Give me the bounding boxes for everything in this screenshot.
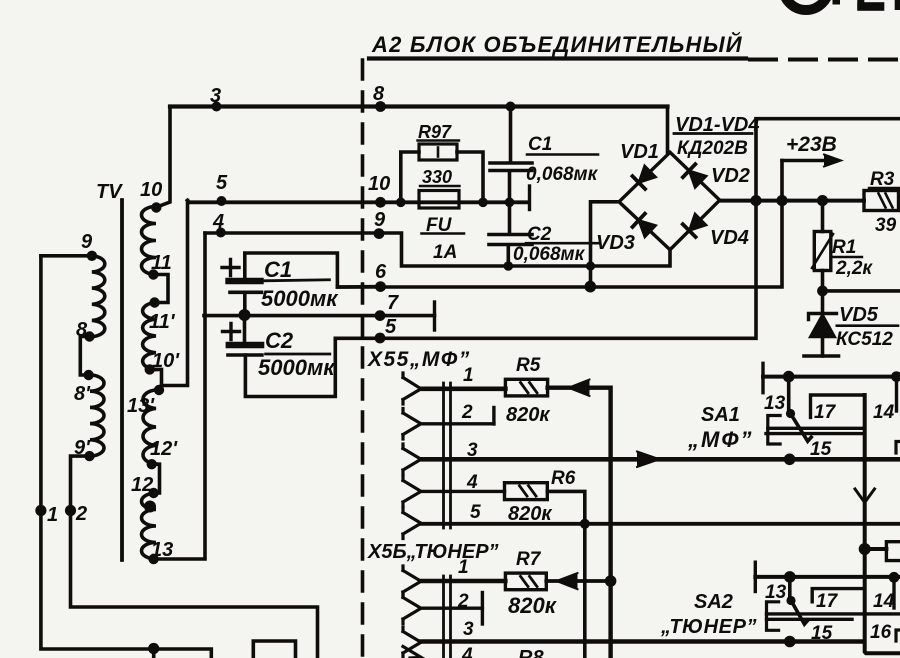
terminal bar end of wire 10: [528, 186, 531, 210]
connector X55 pin5 contact: [403, 508, 421, 539]
bridge diamond VD1-VD4: [619, 152, 720, 249]
svg-text:X55„МФ”: X55„МФ”: [367, 348, 471, 371]
node C lead on wire7: [239, 310, 249, 320]
svg-text:13': 13': [127, 395, 155, 417]
svg-text:15: 15: [810, 439, 832, 460]
svg-text:VD1: VD1: [620, 141, 659, 163]
svg-text:17: 17: [814, 402, 837, 423]
resistor R97 body: [419, 144, 457, 160]
svg-text:TV: TV: [96, 181, 123, 203]
svg-text:5000мк: 5000мк: [261, 286, 339, 311]
underline C1 5000: [263, 280, 329, 281]
node 9: [87, 251, 97, 261]
winding II section 11p-10p: [143, 303, 156, 370]
capacitor C2 5000 bottom plate: [228, 353, 262, 357]
capacitor C2 5000 bottom lead and frame to wire5blk: [245, 338, 335, 396]
wire left rail pin1 down: [41, 256, 211, 658]
node drop crossing wire4-9: [586, 261, 595, 270]
wire pin 7 stub: [204, 314, 435, 318]
winding I section 8p-9p: [90, 375, 104, 456]
svg-text:13: 13: [151, 539, 173, 561]
terminal bar X55 pin2: [492, 408, 495, 425]
wire pins 5-10: [188, 201, 530, 203]
resistor R97 leads: [401, 152, 483, 202]
svg-text:10: 10: [140, 179, 162, 201]
zener VD5 triangle: [810, 315, 835, 338]
svg-text:3: 3: [210, 85, 221, 107]
wire X55 pin5 long: [421, 522, 900, 526]
resistor R3 marks: [879, 194, 893, 208]
wire transformer pin10 riser: [158, 107, 170, 207]
wire SA rail to edge resistor: [865, 547, 887, 551]
svg-text:14: 14: [873, 591, 895, 612]
capacitor C1 5000 bottom plate: [230, 290, 262, 294]
wire pin9p to rail 2: [71, 456, 318, 658]
resistor R6 marks: [520, 486, 537, 496]
switch SA1 top line: [763, 375, 900, 379]
terminal bar end of wire 7: [433, 302, 436, 330]
wire X5B pin1 to R7: [421, 579, 505, 583]
underline 330: [420, 185, 460, 187]
svg-text:14: 14: [873, 402, 895, 423]
zener VD5 top lead: [821, 291, 825, 313]
node 12p: [147, 459, 157, 469]
wire pins 3-8 top: [170, 104, 668, 108]
switch SA2 lines to 14: [767, 614, 900, 619]
zener VD5 bottom lead: [821, 337, 825, 356]
diode VD2: [683, 164, 706, 188]
svg-text:1: 1: [47, 504, 58, 526]
wire X55 pin1 to R5: [421, 386, 505, 391]
winding jog 11-11p: [153, 275, 168, 303]
svg-text:R1: R1: [832, 237, 856, 258]
fuse FU body: [419, 191, 459, 209]
wire R6 to wire pin5: [547, 491, 585, 523]
wire X55 pin3 to SA1: [421, 457, 900, 462]
svg-text:9': 9': [74, 437, 91, 459]
svg-text:С2: С2: [265, 328, 294, 353]
node 10: [151, 202, 161, 212]
svg-text:2: 2: [457, 591, 469, 612]
resistor R3 body: [864, 191, 899, 211]
svg-text:330: 330: [422, 167, 452, 187]
switch SA2 top tick: [754, 562, 757, 591]
svg-text:9: 9: [81, 231, 93, 253]
node 6: [375, 281, 386, 292]
node R6 drop: [580, 519, 590, 529]
node 11p: [149, 297, 159, 307]
svg-text:15: 15: [811, 623, 833, 644]
zener VD5 end bar: [804, 354, 839, 358]
connector X5B pin4 contact: [403, 647, 421, 658]
svg-text:R6: R6: [551, 468, 576, 489]
svg-text:5: 5: [385, 316, 397, 338]
underline VD5: [837, 324, 898, 327]
capacitor C1 0068 top lead: [509, 107, 513, 162]
wire R5 to rail: [548, 388, 611, 658]
node 1: [35, 505, 46, 516]
svg-text:С1: С1: [264, 257, 292, 282]
+23V arrow: [782, 159, 833, 163]
svg-text:11': 11': [149, 311, 176, 333]
capacitor C1 5000 top lead and frame to pin6: [245, 253, 381, 287]
wire X5B pin2 stub: [421, 607, 482, 610]
arrow on R5 wire: [569, 380, 590, 397]
svg-text:R97: R97: [418, 122, 452, 142]
node 13p: [154, 385, 164, 395]
capacitor C1 5000 plus sign: [222, 260, 239, 276]
svg-text:7: 7: [387, 292, 399, 314]
switch SA1 left bracket: [768, 416, 780, 445]
dashed frame vertical: [361, 60, 365, 658]
diode VD1: [633, 166, 656, 189]
arrow down on SA rail: [855, 489, 875, 503]
svg-text:1: 1: [458, 557, 469, 578]
svg-text:12': 12': [150, 438, 178, 460]
switch SA2 right tick: [892, 577, 895, 608]
big heading letter E: [857, 2, 884, 11]
dashed frame horizontal: [750, 58, 900, 62]
wire pin 5 block: [335, 119, 900, 339]
node 8p: [83, 370, 93, 380]
node R1 top: [817, 195, 828, 206]
connector X5B pin3 contact: [403, 627, 421, 658]
underline VD1-VD4 label: [674, 132, 752, 135]
connector X5B rails: [444, 576, 451, 658]
svg-text:4: 4: [461, 645, 473, 658]
svg-text:820к: 820к: [508, 503, 552, 525]
switch SA2 pivot drop: [788, 577, 792, 599]
svg-text:39: 39: [875, 215, 897, 236]
winding jog 8-8p: [80, 337, 89, 376]
big heading letter T: [833, 0, 841, 5]
node bridge minus on wire6: [585, 281, 597, 293]
resistor R7 body: [505, 573, 546, 590]
svg-text:VD4: VD4: [710, 227, 749, 249]
svg-text:КД202В: КД202В: [677, 138, 748, 159]
node 7: [375, 310, 386, 321]
capacitor C2 5000 top lead: [243, 315, 247, 345]
node 10: [375, 197, 386, 208]
underline FU: [422, 232, 465, 235]
svg-text:+23В: +23В: [786, 133, 837, 156]
resistor R6 body: [505, 483, 548, 500]
underline R97: [418, 139, 460, 141]
winding II section 10-11: [142, 207, 157, 275]
capacitor C1 0068 bottom lead: [508, 172, 512, 202]
node SA2 13: [784, 571, 796, 583]
svg-text:SA1: SA1: [701, 404, 740, 426]
node junction row at vertical A: [750, 195, 761, 206]
capacitor C2 5000 top plate: [229, 342, 261, 349]
svg-text:8: 8: [373, 83, 385, 105]
connector X55 pin2 contact: [403, 409, 421, 440]
node SA2 pivot: [786, 596, 795, 605]
svg-text:R7: R7: [516, 549, 542, 570]
node 5tr: [217, 196, 227, 206]
connector X55 rails: [444, 383, 451, 528]
svg-text:X5Б„ТЮНЕР”: X5Б„ТЮНЕР”: [367, 541, 499, 563]
svg-text:1А: 1А: [433, 242, 457, 263]
svg-text:SA2: SA2: [694, 591, 733, 613]
node SA1 13: [783, 371, 795, 383]
node R7 at rail: [605, 575, 617, 587]
node 12: [148, 488, 158, 498]
capacitor C2 5000 plus sign: [223, 324, 240, 340]
wire drop to bridge top: [666, 107, 670, 153]
node SA2 right: [889, 572, 900, 583]
node bottom stub: [148, 643, 159, 654]
wire R6 drop continues down: [583, 524, 587, 658]
connector X55 pin4 contact: [403, 476, 421, 507]
node C1 0068 bottom: [505, 198, 515, 208]
capacitor C1 5000 top plate: [229, 278, 261, 284]
wire R7 to rail node: [546, 579, 610, 583]
node mid 12-13: [144, 501, 156, 513]
svg-text:„МФ”: „МФ”: [687, 427, 754, 452]
connector X55 pin1 contact: [403, 373, 421, 404]
node 13: [148, 554, 158, 564]
connector X5B pin1 contact: [403, 566, 421, 597]
big heading letter C: [783, 0, 829, 10]
wire bridge left vertex drop: [591, 202, 620, 287]
resistor edge body: [886, 542, 900, 561]
svg-text:5: 5: [470, 502, 481, 523]
node junction row at +23V riser: [776, 195, 787, 206]
svg-text:2,2к: 2,2к: [835, 258, 873, 279]
node 3: [212, 102, 222, 112]
resistor R1 adjust stroke: [812, 234, 833, 268]
winding I section 9-8: [92, 256, 105, 337]
svg-text:6: 6: [375, 261, 387, 283]
node R97 right: [478, 198, 488, 208]
svg-text:4: 4: [212, 211, 224, 233]
svg-text:10: 10: [368, 173, 390, 195]
svg-text:FU: FU: [426, 215, 453, 236]
svg-text:„ТЮНЕР”: „ТЮНЕР”: [660, 616, 757, 638]
underline R1: [833, 256, 862, 258]
underline R3: [869, 187, 899, 189]
switch SA1 arm: [790, 412, 812, 441]
node 2: [65, 505, 76, 516]
capacitor C2 0068 top lead: [508, 202, 512, 233]
node R97 left: [396, 198, 406, 208]
svg-text:8: 8: [76, 319, 88, 341]
svg-text:11: 11: [151, 252, 172, 274]
capacitor C1 0068 plates: [490, 163, 532, 171]
svg-text:17: 17: [816, 591, 839, 612]
node C2 5000 top: [239, 309, 251, 321]
svg-text:0,068мк: 0,068мк: [526, 164, 599, 185]
wire pin5 rail to winding tap: [162, 201, 188, 386]
node C2 lead on wire4-9: [504, 261, 514, 271]
arrow on R7 wire: [557, 573, 578, 589]
svg-text:VD2: VD2: [711, 165, 750, 187]
node 9: [374, 228, 385, 239]
svg-text:VD1-VD4: VD1-VD4: [675, 114, 759, 136]
resistor R7 marks: [521, 576, 538, 586]
capacitor C2 0068 bottom lead: [506, 246, 510, 266]
wire bridge right vertex to R3: [720, 199, 864, 203]
wire X55 pin4 to R6: [421, 490, 505, 493]
node SA1 right: [891, 371, 900, 382]
node 11: [148, 269, 158, 279]
svg-text:VD5: VD5: [839, 304, 879, 326]
terminal bar X5B pin2: [481, 593, 484, 625]
node SA1 pivot: [786, 409, 795, 418]
box bottom center component: [253, 641, 295, 658]
svg-text:2: 2: [75, 503, 87, 525]
winding jog 10p-13p: [150, 369, 162, 390]
connector X55 pin3 contact: [403, 444, 421, 475]
svg-text:13: 13: [765, 582, 787, 603]
wire bottom stub drop: [152, 649, 156, 658]
node SA2 on pin3 wire: [784, 636, 796, 648]
switch SA1 lines to 14: [766, 428, 865, 433]
wire junction row to R3 lead: [821, 201, 825, 232]
svg-text:0,068мк: 0,068мк: [513, 244, 586, 265]
winding jog 12p-12: [152, 464, 160, 493]
switch SA1 top tick: [761, 363, 764, 392]
wire R1 bottom to right edge: [823, 289, 900, 293]
svg-text:R5: R5: [516, 355, 541, 376]
svg-text:4: 4: [466, 472, 478, 493]
big heading letter P partial: [895, 0, 900, 10]
node SA1 on pin3 wire: [784, 454, 796, 466]
underline C2 0068: [526, 242, 599, 245]
node C1 top lead: [506, 102, 516, 112]
node 5blk: [375, 333, 386, 344]
switch SA1 pivot drop: [787, 377, 791, 411]
svg-text:820к: 820к: [506, 404, 550, 426]
switch SA2 contact 17 bracket: [812, 589, 864, 602]
switch SA1 right tick: [895, 377, 898, 411]
wire X55 pin2 stub: [421, 422, 494, 425]
svg-text:1: 1: [463, 365, 474, 386]
capacitor C1 5000 bottom lead: [243, 292, 247, 315]
diode VD3: [633, 214, 656, 237]
winding II section 13p-12p: [143, 390, 156, 464]
node 10p: [145, 364, 155, 374]
svg-text:R8: R8: [518, 647, 544, 658]
svg-text:2: 2: [461, 402, 473, 423]
wire SA rail vertical: [865, 395, 900, 653]
underline C1 0068: [527, 153, 598, 156]
svg-text:12: 12: [131, 474, 153, 496]
node 8: [84, 331, 94, 341]
switch SA2 arm: [791, 600, 808, 625]
resistor R97 tick: [437, 148, 440, 157]
wire X5B pin3 to SA2: [421, 639, 864, 643]
transformer TV core: [120, 200, 124, 560]
switch SA1 contact 17 bracket: [811, 395, 865, 417]
resistor R1 bottom lead: [821, 271, 825, 291]
svg-text:А2 БЛОК ОБЪЕДИНИТЕЛЬНЫЙ: А2 БЛОК ОБЪЕДИНИТЕЛЬНЫЙ: [371, 31, 743, 57]
svg-text:КС512: КС512: [836, 329, 893, 350]
title underline: [369, 56, 746, 60]
node 9p: [84, 451, 94, 461]
switch SA2 left bracket: [767, 602, 779, 631]
svg-text:3: 3: [463, 619, 474, 640]
svg-text:8': 8': [74, 383, 91, 405]
wire pin4 rail down to winding 13: [158, 233, 205, 559]
svg-text:16: 16: [870, 622, 892, 643]
zener VD5 cathode bar: [809, 314, 837, 320]
wire pins 4-9: [205, 233, 670, 266]
svg-text:С1: С1: [528, 134, 552, 155]
svg-text:10': 10': [152, 350, 180, 372]
wire pin9 to left rail: [41, 254, 92, 258]
wire 6: [337, 161, 782, 288]
svg-text:R3: R3: [870, 169, 895, 190]
svg-text:5: 5: [216, 172, 228, 194]
resistor R1 body: [814, 232, 831, 271]
svg-text:С2: С2: [527, 224, 552, 245]
switch SA2 top line: [755, 575, 900, 579]
diode VD4: [683, 214, 706, 237]
resistor R5 body: [505, 379, 547, 396]
winding II section 12-13: [142, 493, 157, 559]
node 8: [375, 101, 386, 112]
+23V arrowhead: [824, 155, 841, 167]
connector X5B pin2 contact: [403, 593, 421, 624]
svg-text:820к: 820к: [508, 593, 558, 618]
node 4tr: [216, 228, 226, 238]
svg-text:VD3: VD3: [596, 232, 635, 254]
svg-text:3: 3: [467, 440, 478, 461]
svg-text:5000мк: 5000мк: [258, 355, 336, 380]
arrow on pin3 wire: [637, 452, 660, 468]
svg-text:13: 13: [764, 393, 786, 414]
svg-text:9: 9: [374, 209, 386, 231]
node R1 bottom: [817, 286, 828, 297]
capacitor C2 0068 plates: [489, 235, 532, 245]
resistor R5 marks: [521, 383, 538, 393]
underline C2 5000: [266, 353, 330, 356]
node SA rail to R: [859, 543, 871, 555]
